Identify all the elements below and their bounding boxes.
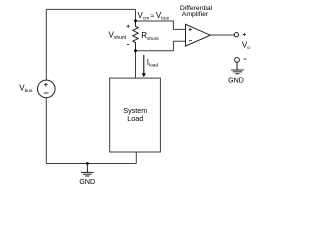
node bottom wire junction: [86, 162, 89, 165]
wire shunt bottom to load top: [135, 51, 137, 78]
label shunt plus polarity: [127, 25, 130, 28]
ground main: [86, 164, 88, 173]
system load box: [110, 78, 161, 152]
voltage source V_bus: [38, 80, 56, 98]
svg-text:GND: GND: [228, 76, 244, 84]
terminal Vo minus: [235, 58, 240, 63]
wire shunt top drop: [135, 9, 137, 21]
op-amp U1 differential amplifier: [186, 24, 211, 46]
svg-text:GND: GND: [79, 178, 95, 186]
wire left vertical upper: [45, 9, 47, 80]
current arrow I_load: [143, 55, 145, 74]
node shunt top junction: [134, 19, 137, 22]
node shunt bottom junction: [134, 49, 137, 52]
terminal Vo plus: [234, 33, 238, 37]
wire load bottom riser: [135, 152, 137, 164]
label shunt minus polarity: [127, 44, 129, 46]
svg-text:Amplifier: Amplifier: [182, 11, 209, 18]
wire op-amp output: [210, 34, 234, 36]
svg-text:Load: Load: [127, 114, 143, 123]
wire left vertical lower: [45, 98, 47, 164]
label op-amp plus input: [189, 28, 192, 31]
wire shunt bottom node to op-amp minus input: [136, 41, 186, 50]
wire top horizontal bus to shunt: [46, 8, 135, 10]
wire bottom horizontal: [46, 163, 136, 165]
label op-amp minus input: [189, 40, 192, 42]
wire shunt top node to op-amp plus input: [136, 21, 186, 29]
resistor R_shunt: [133, 21, 138, 51]
ground output reference: [236, 62, 238, 69]
